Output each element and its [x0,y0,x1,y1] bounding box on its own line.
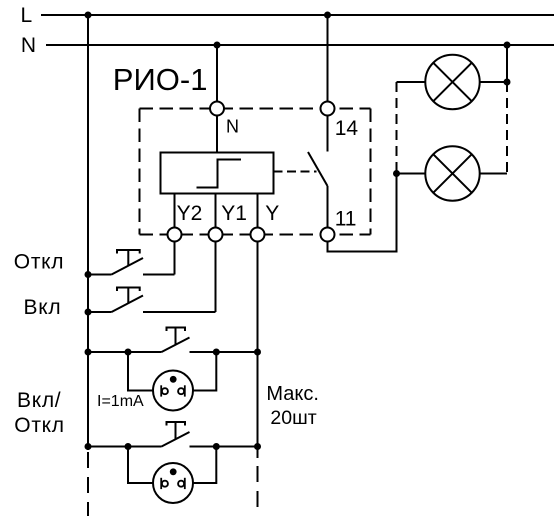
wire lamp HL1 right lead [480,81,507,83]
wire row3 left segment [88,351,162,353]
wire Vkl row left [88,311,112,313]
switch SB2 Vkl actuator cap [117,288,140,292]
lamp HL1 X stroke 2 [433,63,471,101]
wire drop from N bus to terminal N [216,45,218,102]
wire lamp return to terminal 11 [328,174,397,252]
neon lamp NL1 circle [153,371,193,411]
neon lamp NL2 right electrode bulb [178,481,184,487]
relay contact lead to 11 [327,186,329,228]
svg-text:14: 14 [335,117,359,140]
neon lamp NL1 right electrode bulb [178,388,184,394]
neon lamp NL1 left electrode bar [160,385,162,396]
lamp HL2 circle [425,146,479,200]
lamp HL1 X stroke 1 [433,63,471,101]
relay U1 hysteresis symbol [197,160,242,188]
relay U1 coil box [161,153,274,194]
junction L x bus [85,12,92,19]
svg-text:Y1: Y1 [221,202,247,225]
wire Otkl row right [143,274,175,276]
switch SB3 actuator cap [167,328,186,332]
svg-text:20шт: 20шт [270,407,316,429]
svg-text:Макс.: Макс. [266,383,319,405]
relay contact blade [308,152,328,186]
svg-text:Откл: Откл [14,250,64,273]
switch SB1 Otkl blade [112,258,144,275]
svg-text:Y2: Y2 [177,202,203,225]
junction bus x row4 [85,443,92,450]
neon lamp NL1 right electrode bar [184,385,186,396]
wire left bus dashed continuation [87,452,89,516]
wire row4 left segment [88,446,162,448]
switch SB4 actuator stem [175,422,177,439]
lamp HL1 circle [425,55,479,109]
svg-text:I=1mA: I=1mA [97,393,144,410]
wire Vkl row right [143,311,216,313]
wire neon NL2 left drop [128,447,153,484]
switch SB4 actuator cap [167,422,186,426]
wire N bus line [46,44,554,46]
junction row4 neon left [125,443,132,450]
wire Otkl row left [88,274,112,276]
relay contact fixed lead from 14 [327,116,329,152]
wire neon NL1 right drop [193,352,216,391]
wire neon NL2 right drop [193,447,216,484]
switch SB3 actuator stem [175,328,177,345]
junction lamp HL1 right [504,79,511,86]
junction N x lamp-drop [504,42,511,49]
terminal Y1 circle [209,228,223,242]
switch SB1 Otkl actuator cap [117,250,140,254]
svg-text:Y: Y [265,202,279,225]
svg-text:11: 11 [335,207,357,230]
wire drop from N bus to lamp group [506,45,508,82]
svg-text:Вкл: Вкл [24,296,62,319]
wire terminal Y down column [257,242,259,459]
terminal Y circle [251,228,265,242]
neon lamp NL2 right electrode bar [184,478,186,489]
junction row4 x Y column [254,443,261,450]
wire relay box to terminal Y [257,194,259,228]
neon lamp NL2 circle [153,463,193,503]
junction L x 14-drop [324,12,331,19]
junction N x N-drop [214,42,221,49]
wire Y column dashed continuation [257,466,259,516]
svg-text:N: N [226,117,239,137]
wire lamp HL2 left lead [397,173,426,175]
terminal 11 circle [321,228,335,242]
wire left vertical bus from L [87,15,89,450]
terminal Y2 circle [168,228,182,242]
neon lamp NL2 gas dot [170,468,177,475]
wire row4 right segment [190,446,258,448]
wire terminal Y2 down to Otkl switch [174,242,176,275]
junction lamp HL2 left [393,170,400,177]
svg-text:Вкл/: Вкл/ [17,389,61,412]
relay U1 dashed enclosure right [370,109,372,235]
junction bus x Otkl row [85,271,92,278]
relay U1 dashed enclosure bottom [140,234,371,236]
neon lamp NL2 left electrode bar [160,478,162,489]
svg-text:N: N [21,34,36,57]
neon lamp NL2 left electrode bulb [162,481,168,487]
wire neon NL1 left drop [128,352,153,391]
wire dashed left lamp chain [396,82,398,174]
wire drop from L to terminal 14 [327,15,329,102]
terminal 14 circle [321,102,335,116]
wire L bus line [41,14,554,16]
wire lamp HL1 left lead [397,81,426,83]
switch SB3 blade [162,338,190,353]
wire dashed right lamp chain [506,82,508,174]
junction row3 x Y column [254,349,261,356]
wire relay box to terminal Y1 [215,194,217,228]
junction bus x Vkl row [85,309,92,316]
switch SB1 Otkl actuator stem [127,250,129,266]
switch SB2 Vkl actuator stem [127,288,129,304]
lamp HL2 X stroke 2 [433,154,471,192]
switch SB4 blade [162,432,190,447]
switch SB2 Vkl blade [112,296,144,313]
svg-text:Откл: Откл [14,414,64,437]
wire terminal N to relay box [216,116,218,153]
junction bus x row3 [85,349,92,356]
wire row3 right segment [190,351,258,353]
svg-text:РИО-1: РИО-1 [113,62,208,97]
neon lamp NL1 left electrode bulb [162,388,168,394]
junction row3 neon right [213,349,220,356]
relay U1 dashed enclosure top [140,108,371,110]
junction row3 neon left [125,349,132,356]
svg-text:L: L [21,4,33,27]
neon lamp NL1 gas dot [170,376,177,383]
relay mechanical dashed link [274,171,317,173]
wire terminal Y1 down to Vkl switch [215,242,217,313]
junction row4 neon right [213,443,220,450]
wire lamp HL2 right lead [480,173,507,175]
relay U1 dashed enclosure left [139,109,141,235]
terminal N circle [210,102,224,116]
lamp HL2 X stroke 1 [433,154,471,192]
wire relay box to terminal Y2 [174,194,176,228]
